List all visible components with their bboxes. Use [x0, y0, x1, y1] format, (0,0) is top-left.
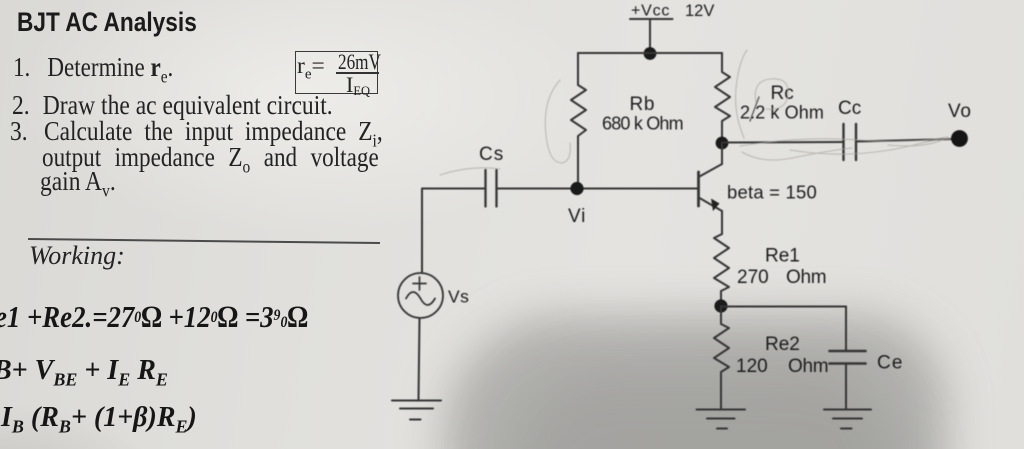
svg-text:Ohm: Ohm — [788, 356, 828, 377]
handwriting line 3 — [1, 402, 197, 438]
label Rc — [740, 83, 824, 123]
capacitor Ce — [830, 351, 866, 364]
handwriting line 1 — [0, 299, 308, 335]
svg-text:Vi: Vi — [568, 206, 586, 227]
svg-text:Cs: Cs — [479, 144, 504, 165]
separator line — [28, 238, 380, 244]
resistor Rb — [571, 53, 586, 188]
junction emitter node — [714, 299, 727, 312]
wire base — [497, 188, 699, 190]
label Vo — [948, 101, 972, 122]
label Re1 — [737, 246, 826, 289]
capacitor Cc — [844, 124, 857, 160]
resistor Re1 — [714, 234, 729, 306]
node +Vcc label — [631, 2, 714, 20]
label Vs — [448, 287, 469, 307]
list item 2 — [12, 90, 333, 121]
svg-text:+Vcc: +Vcc — [631, 3, 670, 20]
transistor Q1 — [699, 143, 723, 234]
title — [17, 7, 197, 38]
ground Ce — [824, 410, 871, 429]
formula box — [295, 51, 378, 94]
wire Cc to Vo — [856, 139, 953, 142]
svg-text:Rb: Rb — [630, 94, 656, 115]
camera shadow blob — [444, 315, 946, 449]
pencil scribbles — [440, 50, 950, 175]
wire Ce top lead — [845, 307, 847, 352]
wire top rail — [578, 52, 722, 54]
svg-text:270: 270 — [737, 267, 769, 288]
svg-text:Rc: Rc — [771, 83, 794, 104]
wire Ce bottom lead — [845, 364, 847, 410]
label Cc — [838, 98, 861, 119]
label Rb — [602, 94, 683, 134]
pencil slash on 2.2 — [750, 97, 759, 121]
svg-text:12V: 12V — [685, 2, 714, 20]
wire emitter node to Ce — [721, 306, 846, 308]
resistor Re2 — [714, 306, 729, 409]
junction Vi node — [570, 182, 583, 195]
+Vcc underline — [630, 18, 673, 20]
source Vs — [398, 273, 443, 318]
working heading — [29, 241, 125, 271]
wire Vs to ground — [419, 318, 420, 400]
label Vi — [568, 206, 586, 227]
svg-text:120: 120 — [736, 356, 768, 377]
list item 3 (justified) — [10, 116, 383, 151]
junction collector node — [716, 137, 729, 150]
svg-text:beta = 150: beta = 150 — [727, 182, 817, 203]
junction Vcc node — [644, 47, 657, 60]
list item 1 — [13, 52, 173, 87]
capacitor Cs — [486, 170, 497, 207]
terminal Vo node — [951, 130, 968, 147]
resistor Rc — [715, 53, 730, 143]
handwriting line 2 — [0, 355, 168, 391]
label Ce — [877, 353, 904, 374]
svg-text:Re1: Re1 — [765, 246, 800, 267]
wire collector to Cc — [722, 141, 844, 144]
ground Re2 — [697, 410, 746, 429]
ground source — [392, 401, 441, 420]
svg-text:Ohm: Ohm — [786, 267, 826, 288]
wire Cs to source corner — [422, 189, 486, 274]
label Cs — [479, 144, 504, 165]
wire Vcc drop — [649, 19, 651, 53]
svg-text:Re2: Re2 — [765, 334, 800, 355]
svg-text:Vs: Vs — [448, 287, 469, 307]
label beta — [727, 182, 817, 203]
svg-text:680 k Ohm: 680 k Ohm — [602, 114, 683, 134]
label Re2 — [736, 334, 828, 377]
svg-text:Cc: Cc — [838, 98, 861, 119]
svg-text:Ce: Ce — [877, 353, 904, 374]
svg-text:Vo: Vo — [948, 101, 972, 122]
